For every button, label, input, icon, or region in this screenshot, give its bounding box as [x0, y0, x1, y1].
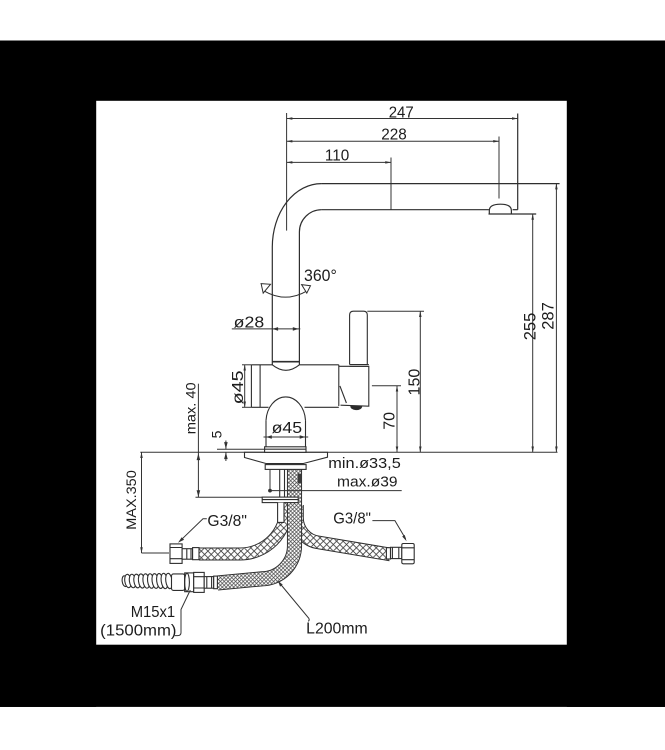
deck counter line — [140, 451, 557, 453]
spout outer edge with bend — [272, 184, 321, 365]
svg-text:228: 228 — [381, 126, 407, 143]
handle lever — [350, 311, 368, 364]
rotation arc 360 — [264, 291, 307, 297]
dim 150 line — [419, 311, 421, 452]
spout arm bottom edge — [321, 209, 489, 211]
ext line 228 — [498, 137, 500, 199]
frame right band — [567, 41, 665, 707]
aerator dome — [489, 204, 511, 214]
dim 5 lower stem — [225, 452, 227, 461]
frame top band — [0, 41, 665, 101]
body bottom right segment — [305, 406, 339, 408]
dim max40 line — [197, 384, 199, 498]
dim line phi28 — [232, 328, 300, 330]
leader L200mm — [278, 582, 309, 622]
mounting washer bar — [262, 497, 298, 503]
ext line plate top — [217, 448, 265, 450]
left supply hose — [199, 502, 286, 554]
escutcheon plate — [245, 452, 328, 463]
dim MAX.350 line — [141, 452, 143, 553]
svg-text:255: 255 — [522, 313, 540, 341]
neck left side — [265, 420, 267, 446]
svg-text:360°: 360° — [304, 267, 337, 285]
svg-text:M15x1: M15x1 — [131, 604, 176, 621]
ext phi45 body top — [242, 364, 251, 366]
spray hose hex nut M15 — [194, 572, 205, 592]
svg-text:247: 247 — [389, 104, 414, 121]
arrow phi45 base right — [300, 435, 306, 439]
dim line phi45 base — [264, 436, 309, 438]
body right edge — [338, 365, 340, 406]
dim 110 line — [287, 161, 391, 163]
svg-text:110: 110 — [325, 148, 349, 165]
spray hose coil — [124, 574, 132, 588]
spout inner edge with bend — [299, 210, 321, 365]
dim 70 line — [396, 386, 398, 453]
right hose hex nut — [402, 544, 414, 564]
ext line spray outlet 70 — [372, 385, 401, 387]
svg-text:MAX.350: MAX.350 — [123, 470, 139, 530]
body top edge with pipe saddle — [251, 365, 338, 371]
frame bottom band — [0, 645, 665, 707]
dim 287 line — [555, 184, 557, 453]
rotation arrowhead left — [261, 284, 270, 294]
leader G3/8 left — [180, 519, 207, 541]
ext line MAX.350 bottom — [142, 552, 170, 554]
svg-text:G3/8": G3/8" — [333, 511, 371, 528]
left hose ferrule — [193, 548, 199, 560]
arm bottom right segment — [513, 209, 518, 211]
arrow phi45 base left — [266, 435, 272, 439]
svg-text:70: 70 — [382, 412, 399, 430]
max.phi39 leader — [270, 470, 402, 491]
pipe end joint line — [272, 361, 299, 363]
arrow 5 down — [224, 442, 228, 449]
pull-out spray hose column and bend — [217, 469, 294, 583]
dim 228 line — [287, 140, 499, 142]
svg-text:150: 150 — [407, 369, 424, 396]
left hose compression sleeve — [182, 549, 193, 560]
body bottom left segment — [251, 406, 268, 408]
svg-text:287: 287 — [540, 302, 558, 330]
svg-text:ø28: ø28 — [234, 314, 265, 331]
escutcheon ring midline — [265, 448, 306, 450]
spray hose end cap — [121, 575, 128, 586]
ext+seam line 110 — [390, 158, 392, 210]
escutcheon ring — [265, 447, 306, 453]
left hose hex nut — [170, 544, 182, 564]
washer midline — [262, 499, 298, 501]
guide tube below washer — [278, 503, 284, 523]
svg-text:5: 5 — [209, 430, 225, 438]
svg-text:ø45: ø45 — [272, 420, 303, 437]
svg-text:L200mm: L200mm — [306, 621, 368, 638]
svg-text:ø45: ø45 — [230, 370, 247, 404]
spout arm top edge + ext to 287 — [321, 183, 559, 185]
spray hose ferrule — [214, 576, 218, 589]
arrow max40 up — [197, 453, 201, 460]
spray hose swivel rings — [185, 573, 194, 592]
lever base joint lines — [350, 365, 369, 367]
spray hose cylinder — [172, 574, 185, 591]
svg-text:(1500mm): (1500mm) — [100, 622, 176, 639]
ext line handle top — [367, 310, 424, 312]
rotation arrowhead right — [302, 285, 311, 294]
cartridge cone diagonal — [340, 386, 347, 403]
dim 5 upper stem — [225, 441, 227, 449]
spout arm right end edge — [517, 114, 519, 210]
leader M15x1 — [175, 590, 191, 636]
svg-text:max.ø39: max.ø39 — [337, 475, 398, 491]
leader arrow G3/8 right — [402, 535, 406, 541]
neck right side — [305, 420, 307, 446]
dim 255 line — [532, 214, 534, 452]
mounting block — [265, 465, 306, 470]
right hose sleeve — [391, 547, 402, 558]
leader G3/8 right — [372, 521, 405, 539]
svg-text:min.ø33,5: min.ø33,5 — [328, 456, 401, 472]
shank tube lines — [280, 469, 285, 497]
svg-text:max. 40: max. 40 — [183, 382, 199, 434]
dim line phi45 body — [244, 365, 246, 407]
right hose ferrule — [386, 548, 390, 559]
neck saddle arc — [266, 397, 306, 421]
right supply hose — [297, 505, 391, 555]
check valve dome — [351, 406, 362, 410]
arrow max40 down — [197, 490, 201, 497]
aerator dome baseline + ext to 255 — [489, 213, 537, 215]
frame left band — [0, 41, 96, 707]
leader arrow G3/8 left — [178, 537, 184, 543]
ext centerline of spout pipe — [286, 113, 288, 231]
spray hose sleeve — [204, 577, 214, 589]
ext line washer level — [196, 496, 263, 498]
cartridge block — [339, 366, 369, 406]
body end cap seam — [259, 365, 261, 408]
body left face — [250, 365, 252, 408]
ext phi45 body bottom — [242, 406, 251, 408]
hose clip dark — [298, 474, 302, 484]
arrow 5 up — [224, 452, 228, 459]
arrow phi28 left — [272, 327, 278, 331]
svg-text:G3/8": G3/8" — [207, 513, 247, 530]
dim 247 line — [287, 118, 518, 120]
arrow phi28 right — [293, 327, 299, 331]
leader arrow L200mm — [278, 581, 283, 587]
